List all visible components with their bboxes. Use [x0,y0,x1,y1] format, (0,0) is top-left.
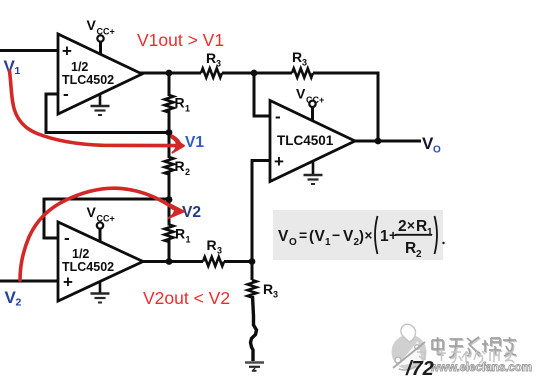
svg-text:O: O [289,237,297,248]
svg-text:V: V [315,228,326,245]
svg-text:V: V [87,204,97,220]
svg-text:TLC4502: TLC4502 [62,260,114,274]
ground U2 [91,282,110,303]
node V2 input label [5,288,22,309]
svg-text:/72: /72 [405,358,434,380]
svg-text:1: 1 [185,104,190,114]
svg-text:+: + [63,273,73,292]
svg-text:R: R [175,158,185,174]
svg-text:1: 1 [325,237,331,248]
resistor R1 (lower) [165,225,174,242]
svg-text:2: 2 [416,249,422,260]
Vcc+ supply pin U3 [296,86,324,121]
resistor R3 (top feedback of U3) [292,68,313,77]
wire bottom R3 to plus-node [224,260,253,263]
watermark logo (elecfans compass) [392,324,427,370]
wire R1 to V1 node [168,71,171,96]
svg-text:R: R [405,240,416,257]
svg-text:3: 3 [302,58,307,68]
wire U3 output [353,140,421,143]
wire U2 feedback (minus input up to V2 node) [44,198,169,240]
node V1 input label [4,57,21,77]
node V2 junction [166,196,173,203]
wire U1 output to top rail [140,72,201,75]
svg-text:V: V [87,17,97,33]
svg-text:V: V [278,228,289,245]
wire lower R1 to bottom rail [168,239,171,264]
svg-text:R: R [416,218,427,235]
node Vo label [422,134,441,156]
svg-text:R: R [263,281,273,297]
svg-text:-: - [63,85,69,104]
svg-text:-: - [275,107,281,126]
svg-text:×: × [407,218,415,233]
svg-text:-: - [64,229,70,248]
resistor R3 (top left) [201,68,222,77]
svg-text:=: = [299,227,307,243]
svg-text:2: 2 [398,218,407,235]
svg-text:R: R [175,226,185,242]
svg-text:V2: V2 [182,204,201,221]
svg-text:1/2: 1/2 [72,247,89,261]
svg-text:1: 1 [186,235,191,245]
node U2 output junction [166,258,173,265]
watermark text dianzifashaoyou (fake CJK strokes) [433,338,517,358]
formula box background [273,210,443,260]
resistor R1 (upper) [165,95,174,112]
ground U3 [304,160,323,184]
svg-text:R: R [175,95,185,111]
resistor R3 (bottom rail) [203,257,224,266]
wire R2 to V2 node [168,172,171,226]
svg-text:O: O [433,145,441,156]
svg-text:V2out < V2: V2out < V2 [143,288,230,308]
svg-text:(: ( [309,228,314,245]
wire vertical R3 to ground (hand-retraced kink) [251,296,257,361]
node plus junction [249,258,256,265]
wire V2 input to U2 + [0,280,58,283]
svg-text:1: 1 [15,65,21,77]
svg-text:3: 3 [217,246,222,256]
svg-text:R: R [292,49,302,65]
svg-text:R: R [206,50,216,66]
svg-text:3: 3 [216,59,221,69]
svg-text:2: 2 [16,297,22,309]
svg-text:TLC4501: TLC4501 [277,133,334,148]
svg-text:+: + [62,42,72,61]
op-amp U1 (1/2 TLC4502, top) [58,34,142,114]
svg-text:V: V [343,228,354,245]
annotation red curve from V2 to node V2 [20,188,184,280]
node V1 junction [166,129,173,136]
resistor R2 [165,157,174,174]
op-amp U2 (1/2 TLC4502, bottom) [58,222,143,301]
svg-text:2: 2 [185,167,190,177]
svg-text:): ) [359,228,364,245]
Vcc+ supply pin U1 [87,17,115,55]
svg-text:1: 1 [380,228,389,245]
annotation red curve from V1 to node V1 [10,71,185,153]
ground U1 [91,94,110,116]
node U3 output junction [375,138,382,145]
svg-text:+: + [274,152,284,171]
wire R3 to summing node [222,72,292,75]
wire summing node down to U3 minus input [253,73,270,116]
watermark text shiwangeweishenme (fake CJK strokes) [417,349,514,363]
svg-text:−: − [332,227,340,243]
wire feedback rail down to output node [313,72,378,142]
svg-text:R: R [207,237,217,253]
node summing junction [251,70,258,77]
wire U2 output to bottom rail [141,260,203,263]
svg-text:V1out > V1: V1out > V1 [137,30,224,50]
svg-text:V1: V1 [185,134,204,151]
svg-text:1: 1 [427,227,433,238]
svg-text:3: 3 [273,290,278,300]
wire U1 feedback (minus input to node below R1) [46,93,169,134]
ground (bottom) [245,363,264,372]
op-amp U3 (TLC4501) [270,101,355,182]
Vcc+ supply pin U2 [87,204,115,243]
svg-text:www.elecfans.com: www.elecfans.com [429,360,532,374]
svg-text:×: × [365,228,373,243]
svg-text:V: V [296,86,306,102]
svg-text:TLC4502: TLC4502 [62,73,114,87]
svg-text:1/2: 1/2 [71,60,88,74]
node U1 output junction [166,70,173,77]
resistor R3 (vertical, to ground) [248,262,279,300]
wire V1 input to U1 + [0,49,58,52]
wire plus node up to U3 plus input [251,161,270,264]
formula Vo = (V1 - V2) x (1 + 2xR1/R2) [278,216,445,260]
